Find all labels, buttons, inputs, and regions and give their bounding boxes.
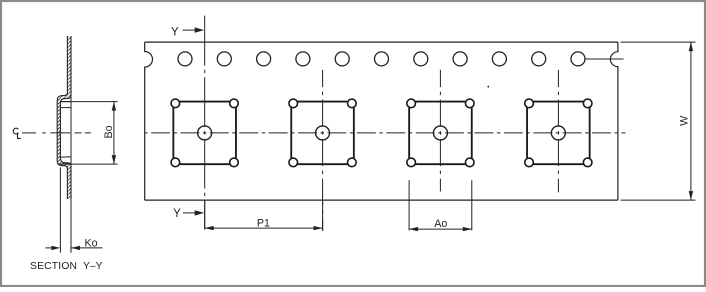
sprocket hole 11 (571, 52, 585, 66)
sprocket hole 9 (492, 52, 506, 66)
sprocket hole 10 (532, 52, 546, 66)
section view: tape cross-section strip with hatching (57, 36, 71, 199)
stray ink dot (487, 86, 489, 88)
svg-text:Y: Y (173, 208, 181, 220)
pocket bottom (draft) bottom edge (60, 156, 71, 159)
pocket 3 vertical centerline (439, 70, 441, 192)
sprocket hole 2 (217, 52, 231, 66)
tape outline bottom edge (145, 199, 618, 201)
svg-text:Ko: Ko (84, 238, 97, 250)
tape outline top edge (145, 41, 618, 43)
sprocket hole 7 (414, 52, 428, 66)
sprocket hole 5 (335, 52, 349, 66)
sprocket hole 1 (178, 52, 192, 66)
pocket opening top edge (61, 101, 71, 103)
pocket opening bottom edge (61, 163, 71, 165)
dimension W: dimension line with arrows (690, 42, 692, 200)
dimension Bo: extension lines (61, 101, 117, 103)
svg-text:Bo: Bo (103, 125, 115, 138)
svg-text:Y–Y: Y–Y (83, 261, 103, 272)
section centerline with centerline symbol (13, 128, 18, 134)
pocket 3 outline with corner reliefs and center hole (407, 99, 474, 167)
dimension Ao: extension lines (408, 180, 410, 230)
dimension Ko: extension lines (59, 168, 61, 253)
dimension Bo: dimension line with arrows (113, 102, 115, 165)
pocket 4 outline with corner reliefs and center hole (525, 99, 592, 167)
pocket 2 vertical centerline (322, 70, 324, 231)
sprocket hole 3 (257, 52, 271, 66)
pocket 4 vertical centerline (557, 70, 559, 193)
dimension Ko: dimension line with arrows (45, 247, 52, 249)
dimension W: extension lines (621, 41, 696, 43)
pocket 1 outline with corner reliefs and center hole (171, 99, 238, 167)
horizontal pocket centerline across tape (145, 132, 626, 134)
section cut line Y-Y through pocket 1 (204, 14, 206, 230)
pocket bottom (draft) top edge (61, 107, 71, 109)
sprocket row line through right notch (585, 58, 624, 60)
svg-text:W: W (679, 115, 691, 126)
svg-text:SECTION: SECTION (30, 261, 77, 272)
pocket 2 outline with corner reliefs and center hole (289, 99, 356, 167)
svg-text:P1: P1 (257, 217, 270, 229)
tape left edge with sprocket notch (145, 42, 153, 200)
tape right edge with sprocket notch (610, 42, 617, 200)
sprocket hole 4 (296, 52, 310, 66)
dimension Ao: dimension line with arrows (409, 228, 472, 230)
svg-text:Ao: Ao (434, 218, 447, 230)
sprocket hole 6 (375, 52, 389, 66)
P1 extension solid segments below tape (204, 201, 206, 230)
dimension P1: dimension line with arrows (205, 227, 323, 229)
tape back-surface edge line through pocket region (70, 96, 72, 165)
svg-text:Y: Y (171, 27, 179, 39)
sprocket hole 8 (453, 52, 467, 66)
